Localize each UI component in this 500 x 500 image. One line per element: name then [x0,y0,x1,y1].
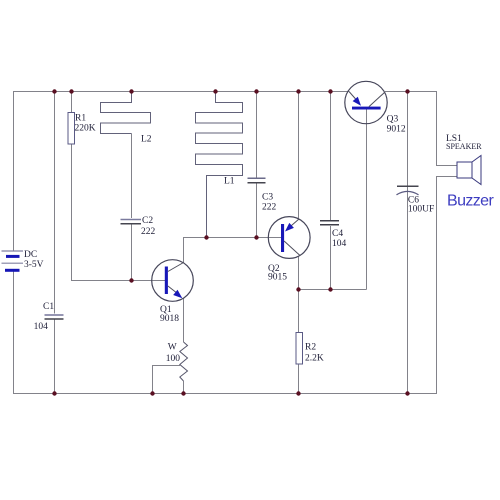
svg-text:L1: L1 [224,177,235,187]
svg-text:L2: L2 [141,135,152,145]
svg-text:R2: R2 [305,343,316,353]
svg-text:9012: 9012 [387,125,406,135]
svg-text:9015: 9015 [268,273,287,283]
svg-text:104: 104 [34,322,49,332]
svg-text:C4: C4 [332,229,343,239]
svg-text:104: 104 [332,239,347,249]
svg-text:222: 222 [262,203,277,213]
svg-text:DC: DC [24,250,37,260]
svg-text:C2: C2 [142,216,153,226]
svg-text:Buzzer: Buzzer [447,193,494,210]
svg-text:100UF: 100UF [408,205,434,215]
svg-text:3-5V: 3-5V [24,260,44,270]
svg-text:R1: R1 [75,114,86,124]
svg-text:222: 222 [141,227,156,237]
svg-text:C1: C1 [43,302,54,312]
svg-text:220K: 220K [75,124,96,134]
svg-text:100: 100 [166,354,181,364]
svg-text:SPEAKER: SPEAKER [446,142,482,151]
svg-text:Q3: Q3 [387,115,399,125]
svg-text:W: W [168,343,177,353]
svg-text:C3: C3 [262,193,273,203]
svg-text:9018: 9018 [160,314,179,324]
svg-text:2.2K: 2.2K [305,354,324,364]
